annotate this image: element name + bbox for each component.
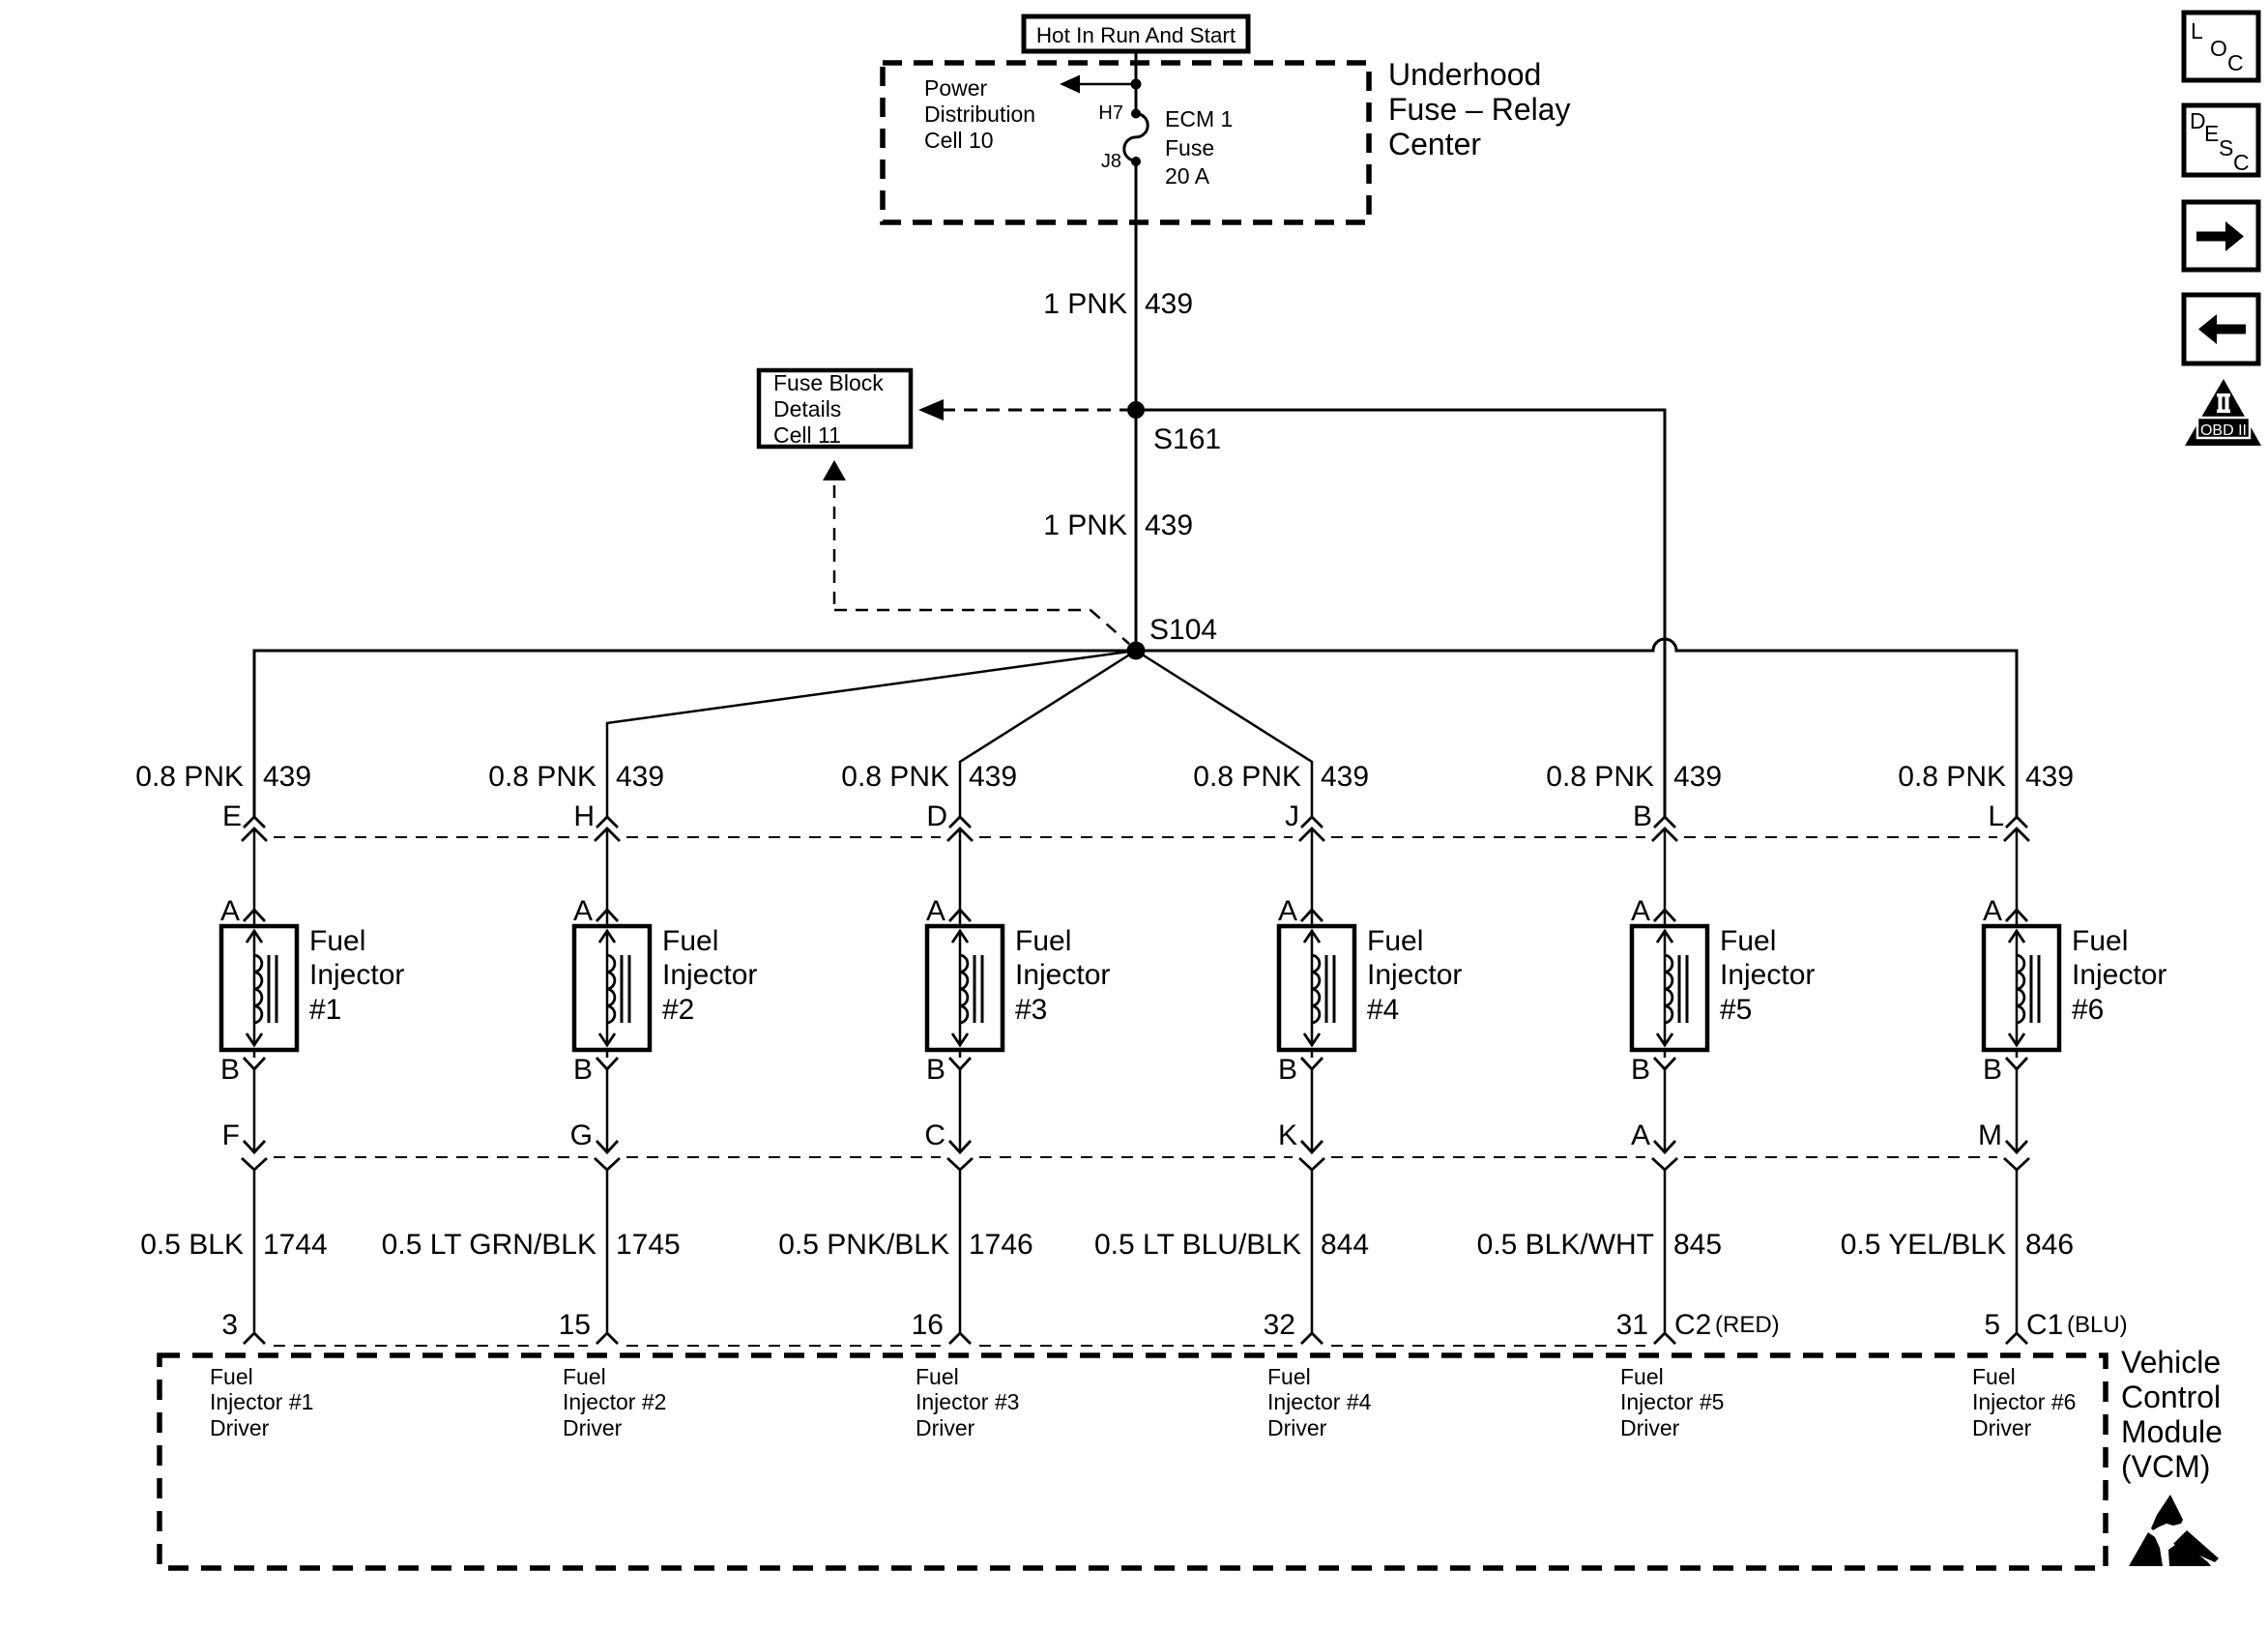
harness connector chevrons (injector 3) [949, 1141, 971, 1152]
pin B chevron (injector 1) [244, 1058, 265, 1069]
svg-text:B: B [1278, 1054, 1297, 1086]
injector core bars (injector 4) [1325, 955, 1328, 1023]
inline connector chevrons (injector 1) [244, 817, 265, 828]
svg-text:Cell 11: Cell 11 [773, 422, 841, 448]
svg-text:A: A [1631, 895, 1650, 927]
svg-text:F: F [222, 1119, 240, 1151]
injector solenoid arrow (injector 2) [606, 932, 609, 1044]
splice S161 dot [1127, 401, 1145, 419]
injector coil (injector 3) [960, 955, 968, 1023]
svg-text:0.8 PNK: 0.8 PNK [841, 761, 949, 793]
svg-text:846: 846 [2025, 1229, 2074, 1261]
svg-text:B: B [1633, 800, 1652, 832]
svg-text:1746: 1746 [969, 1229, 1033, 1261]
svg-text:A: A [573, 895, 593, 927]
svg-text:H: H [573, 800, 595, 832]
svg-text:Fuel: Fuel [1367, 925, 1423, 957]
svg-text:A: A [1631, 1119, 1650, 1151]
svg-text:L: L [2191, 18, 2203, 44]
svg-text:Power: Power [924, 75, 988, 101]
svg-text:B: B [573, 1054, 593, 1086]
wire harness to VCM (injector 5) [1664, 1170, 1667, 1332]
inline connector chevrons (injector 2) [596, 817, 618, 828]
svg-text:Injector #3: Injector #3 [916, 1389, 1019, 1414]
svg-text:1 PNK: 1 PNK [1043, 509, 1127, 541]
svg-text:0.8 PNK: 0.8 PNK [1193, 761, 1301, 793]
bus wire S104 to injector 1 [254, 651, 1136, 819]
svg-text:Injector: Injector [1720, 959, 1815, 991]
pin A chevron (injector 3) [949, 910, 971, 921]
svg-text:0.8 PNK: 0.8 PNK [488, 761, 596, 793]
svg-text:#1: #1 [309, 994, 341, 1026]
svg-text:0.8 PNK: 0.8 PNK [1546, 761, 1654, 793]
splice S104 dot [1127, 642, 1146, 660]
svg-text:Center: Center [1388, 127, 1481, 161]
svg-text:Underhood: Underhood [1388, 57, 1541, 92]
injector coil (injector 6) [2017, 955, 2024, 1023]
svg-text:Fuel: Fuel [1720, 925, 1776, 957]
svg-text:439: 439 [2025, 761, 2074, 793]
svg-text:Injector #5: Injector #5 [1620, 1389, 1724, 1414]
svg-text:Fuel: Fuel [563, 1364, 606, 1389]
svg-text:A: A [926, 895, 945, 927]
wire harness to VCM (injector 4) [1311, 1170, 1314, 1332]
svg-text:Fuel: Fuel [1267, 1364, 1311, 1389]
svg-text:Driver: Driver [210, 1415, 270, 1440]
svg-text:32: 32 [1264, 1309, 1295, 1341]
wire connector to injector 6 [2016, 829, 2019, 911]
svg-text:Fuel: Fuel [1620, 1364, 1664, 1389]
svg-text:1744: 1744 [263, 1229, 328, 1261]
harness connector chevrons (injector 5) [1654, 1141, 1675, 1152]
svg-text:S104: S104 [1149, 614, 1217, 646]
icon box arrow right [2184, 202, 2258, 270]
pin A chevron (injector 1) [244, 910, 265, 921]
svg-text:K: K [1278, 1119, 1297, 1151]
injector coil (injector 5) [1665, 955, 1672, 1023]
pin B chevron (injector 6) [2006, 1058, 2027, 1069]
svg-text:15: 15 [559, 1309, 591, 1341]
svg-text:Fuel: Fuel [1972, 1364, 2016, 1389]
injector coil (injector 2) [607, 955, 615, 1023]
wire harness to VCM (injector 3) [959, 1170, 962, 1332]
icon box arrow left [2184, 295, 2258, 363]
svg-text:Injector #1: Injector #1 [210, 1389, 313, 1414]
svg-text:Fuse: Fuse [1165, 135, 1214, 160]
harness connector dashed line (top) [274, 836, 588, 838]
svg-text:M: M [1978, 1119, 2002, 1151]
icon box DESC [2184, 105, 2258, 175]
harness connector dashed line (middle) [274, 1156, 588, 1158]
svg-text:439: 439 [1321, 761, 1369, 793]
wire injector 4 to harness connector [1311, 1069, 1314, 1151]
svg-text:16: 16 [912, 1309, 944, 1341]
wire injector 3 to harness connector [959, 1069, 962, 1151]
svg-text:0.8 PNK: 0.8 PNK [135, 761, 244, 793]
svg-text:Details: Details [773, 396, 841, 422]
wire S161 to S104 [1135, 410, 1138, 651]
svg-text:#4: #4 [1367, 994, 1399, 1026]
svg-text:Fuse Block: Fuse Block [773, 370, 884, 395]
svg-text:E: E [2204, 121, 2219, 146]
injector core bars (injector 3) [974, 955, 976, 1023]
pin A chevron (injector 6) [2006, 910, 2027, 921]
svg-text:L: L [1988, 800, 2004, 832]
branch wire S104 to injector 2 [607, 651, 1136, 819]
wire feed from Hot In Run to fuse [1135, 51, 1138, 114]
svg-text:(BLU): (BLU) [2067, 1312, 2128, 1338]
svg-text:E: E [222, 800, 242, 832]
svg-text:(VCM): (VCM) [2121, 1449, 2210, 1484]
terminal H7 dot [1131, 109, 1141, 119]
branch wire S104 to injector 3 [960, 651, 1136, 819]
svg-text:Driver: Driver [1267, 1415, 1327, 1440]
pin B chevron (injector 4) [1301, 1058, 1323, 1069]
injector coil (injector 4) [1312, 955, 1320, 1023]
wire injector 5 to harness connector [1664, 1069, 1667, 1151]
svg-text:B: B [1983, 1054, 2002, 1086]
svg-text:0.8 PNK: 0.8 PNK [1898, 761, 2006, 793]
icon box LOC [2184, 13, 2258, 80]
svg-text:439: 439 [1673, 761, 1722, 793]
svg-text:B: B [220, 1054, 240, 1086]
svg-text:Hot In Run And Start: Hot In Run And Start [1036, 23, 1236, 47]
svg-text:439: 439 [1145, 288, 1193, 320]
wire fuse to S161 [1135, 161, 1138, 410]
dashed reference arrow to fuse block [942, 409, 1127, 412]
svg-text:C: C [2233, 150, 2250, 175]
vehicle control module dashed box [160, 1355, 2106, 1568]
svg-text:C: C [2227, 50, 2244, 75]
svg-text:ECM 1: ECM 1 [1165, 106, 1233, 131]
fuel injector box 3 [927, 926, 1003, 1050]
inline connector chevrons (injector 4) [1301, 817, 1323, 828]
svg-text:31: 31 [1616, 1309, 1648, 1341]
pin B chevron (injector 5) [1654, 1058, 1675, 1069]
fuel injector box 5 [1632, 926, 1707, 1050]
harness connector chevrons (injector 2) [596, 1141, 618, 1152]
VCM pin chevron (injector 6) [2006, 1333, 2027, 1344]
harness connector chevrons (injector 4) [1301, 1141, 1323, 1152]
fuse ECM 1 element (S-curve) [1124, 114, 1148, 161]
svg-text:#5: #5 [1720, 994, 1752, 1026]
svg-text:Injector: Injector [1367, 959, 1462, 991]
arrow to power distribution [1079, 83, 1136, 86]
wire connector to injector 2 [606, 829, 609, 911]
injector solenoid arrow (injector 6) [2016, 932, 2019, 1044]
svg-text:Module: Module [2121, 1414, 2223, 1449]
svg-text:Injector #4: Injector #4 [1267, 1389, 1372, 1414]
svg-text:O: O [2210, 36, 2227, 61]
wire connector to injector 4 [1311, 829, 1314, 911]
svg-text:#3: #3 [1015, 994, 1047, 1026]
ESD sensitivity symbol [2129, 1495, 2219, 1566]
svg-text:#6: #6 [2072, 994, 2104, 1026]
svg-text:Distribution: Distribution [924, 102, 1035, 127]
svg-text:844: 844 [1321, 1229, 1369, 1261]
fuse block details box [759, 370, 911, 447]
icon OBD II triangle [2185, 379, 2261, 446]
VCM pin chevron (injector 1) [244, 1333, 265, 1344]
VCM pin chevron (injector 2) [596, 1333, 618, 1344]
injector coil (injector 1) [254, 955, 262, 1023]
harness connector chevrons (injector 1) [244, 1141, 265, 1152]
svg-text:G: G [570, 1119, 593, 1151]
pin A chevron (injector 4) [1301, 910, 1323, 921]
svg-text:Fuse – Relay: Fuse – Relay [1388, 92, 1571, 127]
svg-text:5: 5 [1984, 1309, 2000, 1341]
svg-text:Driver: Driver [1972, 1415, 2032, 1440]
svg-text:Fuel: Fuel [210, 1364, 253, 1389]
svg-text:1745: 1745 [616, 1229, 681, 1261]
svg-text:439: 439 [263, 761, 311, 793]
bus wire S104 to injector 6 (hop over branch 5) [1136, 639, 2017, 819]
fuel injector box 1 [221, 926, 297, 1050]
svg-text:439: 439 [1145, 509, 1193, 541]
harness connector chevrons (injector 6) [2006, 1141, 2027, 1152]
svg-text:C1: C1 [2026, 1309, 2063, 1341]
svg-text:C2: C2 [1674, 1309, 1711, 1341]
injector core bars (injector 6) [2030, 955, 2033, 1023]
wire injector 2 to harness connector [606, 1069, 609, 1151]
VCM pin chevron (injector 3) [949, 1333, 971, 1344]
injector core bars (injector 2) [621, 955, 624, 1023]
svg-text:H7: H7 [1098, 102, 1123, 124]
fuel injector box 6 [1984, 926, 2059, 1050]
svg-text:439: 439 [969, 761, 1017, 793]
svg-text:0.5 BLK: 0.5 BLK [140, 1229, 244, 1261]
junction dot at arrow [1131, 79, 1142, 90]
svg-text:Cell 10: Cell 10 [924, 128, 994, 153]
injector solenoid arrow (injector 4) [1311, 932, 1314, 1044]
svg-text:845: 845 [1673, 1229, 1722, 1261]
injector solenoid arrow (injector 3) [959, 932, 962, 1044]
svg-text:Injector: Injector [1015, 959, 1110, 991]
svg-text:OBD II: OBD II [2200, 422, 2247, 439]
svg-text:Driver: Driver [916, 1415, 975, 1440]
svg-text:S161: S161 [1153, 423, 1221, 455]
dashed reference path S104 to fuse block [823, 460, 846, 480]
svg-text:Driver: Driver [1620, 1415, 1680, 1440]
wire connector to injector 5 [1664, 829, 1667, 911]
svg-text:3: 3 [221, 1309, 238, 1341]
svg-text:20 A: 20 A [1165, 163, 1210, 189]
wire injector 6 to harness connector [2016, 1069, 2019, 1151]
svg-text:0.5 YEL/BLK: 0.5 YEL/BLK [1841, 1229, 2006, 1261]
svg-text:A: A [1278, 895, 1297, 927]
svg-text:0.5 LT GRN/BLK: 0.5 LT GRN/BLK [382, 1229, 596, 1261]
branch wire S104 to injector 4 [1136, 651, 1312, 819]
svg-text:0.5 LT BLU/BLK: 0.5 LT BLU/BLK [1094, 1229, 1301, 1261]
svg-text:Fuel: Fuel [2072, 925, 2128, 957]
inline connector chevrons (injector 3) [949, 817, 971, 828]
svg-text:439: 439 [616, 761, 664, 793]
svg-text:Injector #2: Injector #2 [563, 1389, 666, 1414]
wire connector to injector 1 [253, 829, 256, 911]
svg-text:A: A [220, 895, 240, 927]
wire harness to VCM (injector 2) [606, 1170, 609, 1332]
wire harness to VCM (injector 1) [253, 1170, 256, 1332]
fuel injector box 4 [1279, 926, 1354, 1050]
svg-text:S: S [2219, 135, 2233, 160]
pin B chevron (injector 2) [596, 1058, 618, 1069]
svg-text:A: A [1983, 895, 2002, 927]
svg-text:1 PNK: 1 PNK [1043, 288, 1127, 320]
wire harness to VCM (injector 6) [2016, 1170, 2019, 1332]
svg-text:Driver: Driver [563, 1415, 623, 1440]
svg-text:Control: Control [2121, 1380, 2221, 1414]
svg-text:Fuel: Fuel [309, 925, 365, 957]
inline connector chevrons (injector 5) [1654, 817, 1675, 828]
injector solenoid arrow (injector 1) [253, 932, 256, 1044]
svg-text:#2: #2 [662, 994, 694, 1026]
svg-text:Injector #6: Injector #6 [1972, 1389, 2076, 1414]
svg-text:Injector: Injector [309, 959, 404, 991]
svg-text:Vehicle: Vehicle [2121, 1345, 2221, 1380]
underhood fuse-relay center dashed box [883, 63, 1369, 222]
wire injector 1 to harness connector [253, 1069, 256, 1151]
svg-text:Fuel: Fuel [916, 1364, 959, 1389]
injector core bars (injector 1) [268, 955, 271, 1023]
VCM connector dashed line (bottom) [274, 1345, 588, 1347]
pin A chevron (injector 5) [1654, 910, 1675, 921]
svg-text:Fuel: Fuel [662, 925, 718, 957]
svg-text:B: B [926, 1054, 945, 1086]
VCM pin chevron (injector 4) [1301, 1333, 1323, 1344]
svg-text:0.5 BLK/WHT: 0.5 BLK/WHT [1477, 1229, 1654, 1261]
svg-text:0.5 PNK/BLK: 0.5 PNK/BLK [778, 1229, 949, 1261]
svg-text:(RED): (RED) [1715, 1312, 1780, 1338]
fuel injector box 2 [574, 926, 650, 1050]
svg-text:D: D [926, 800, 947, 832]
pin A chevron (injector 2) [596, 910, 618, 921]
svg-text:Fuel: Fuel [1015, 925, 1071, 957]
svg-text:J: J [1285, 800, 1299, 832]
injector core bars (injector 5) [1678, 955, 1681, 1023]
injector solenoid arrow (injector 5) [1664, 932, 1667, 1044]
wire S161 to injector 5 branch [1136, 410, 1665, 819]
svg-text:Injector: Injector [2072, 959, 2166, 991]
svg-text:C: C [924, 1119, 945, 1151]
inline connector chevrons (injector 6) [2006, 817, 2027, 828]
svg-text:J8: J8 [1101, 151, 1121, 172]
svg-text:Injector: Injector [662, 959, 757, 991]
pin B chevron (injector 3) [949, 1058, 971, 1069]
power label box "Hot In Run And Start" [1024, 16, 1248, 51]
VCM pin chevron (injector 5) [1654, 1333, 1675, 1344]
svg-text:B: B [1631, 1054, 1650, 1086]
wire connector to injector 3 [959, 829, 962, 911]
terminal J8 dot [1131, 157, 1141, 166]
